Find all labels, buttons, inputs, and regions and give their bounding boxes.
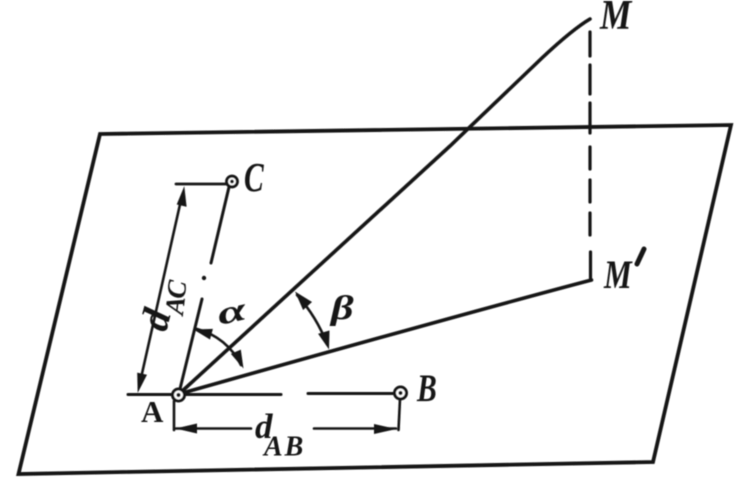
wire horizontal line through A to B [128,394,393,395]
svg-text:AB: AB [262,432,305,463]
tick at C [176,183,227,186]
svg-text:β: β [329,289,354,327]
label beta [329,289,354,327]
angle beta arc with arrowheads [295,292,330,350]
angle alpha arc with arrowheads [194,329,244,369]
dimension d_AB: left leg, line, arrows, right leg [174,399,400,434]
label alpha [214,291,251,332]
label d_AC (rotated) [131,278,192,335]
node C (circle with dot) [227,176,238,187]
svg-text:M: M [603,252,633,297]
wire line A to M [179,19,590,394]
node A (circle with dot) [173,389,185,401]
label M' [603,249,644,297]
svg-text:A: A [141,394,164,429]
label B [416,367,437,410]
label A [141,394,164,429]
label C [244,154,265,200]
svg-text:C: C [244,154,265,200]
node B (circle with dot) [395,387,407,399]
wire line A to M' [179,280,592,394]
wire dashed vertical M to M' [588,32,592,280]
wire line A to C (two segments) [179,187,229,393]
plane quadrilateral [19,125,732,474]
label M [599,0,633,39]
label d_AB [255,407,305,463]
dimension line d_AC with arrows [137,186,186,393]
svg-text:B: B [416,367,437,410]
svg-text:M: M [599,0,633,39]
